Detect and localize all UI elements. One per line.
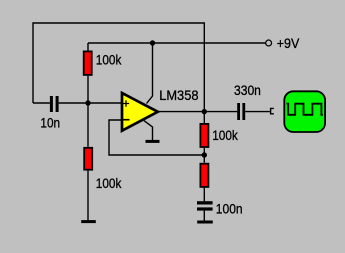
- svg-text:330n: 330n: [234, 82, 261, 98]
- svg-text:100k: 100k: [96, 175, 122, 191]
- svg-text:100k: 100k: [96, 51, 122, 67]
- svg-text:100n: 100n: [216, 200, 243, 216]
- svg-text:+9V: +9V: [277, 35, 300, 51]
- svg-text:100k: 100k: [212, 127, 238, 143]
- svg-text:10n: 10n: [40, 115, 60, 131]
- svg-text:LM358: LM358: [159, 87, 198, 103]
